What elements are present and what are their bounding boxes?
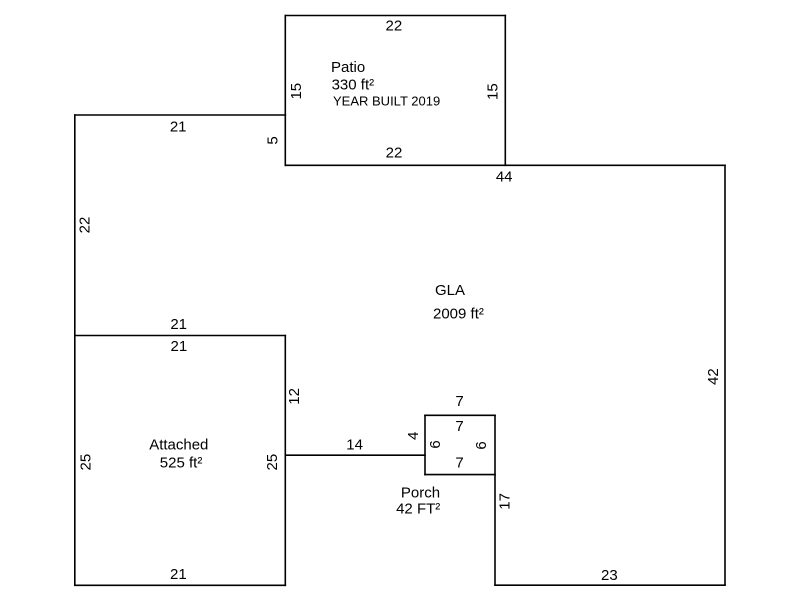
- svg-text:42: 42: [705, 368, 722, 385]
- svg-text:4: 4: [405, 432, 422, 440]
- wall: porch top: [425, 414, 495, 416]
- svg-text:22: 22: [386, 144, 403, 161]
- svg-text:17: 17: [496, 493, 513, 510]
- svg-text:14: 14: [346, 437, 363, 454]
- svg-text:YEAR BUILT 2019: YEAR BUILT 2019: [333, 94, 440, 109]
- wall: GLA right side: [724, 165, 726, 585]
- wall: porch left: [424, 415, 426, 474]
- svg-text:44: 44: [496, 169, 513, 186]
- svg-text:25: 25: [264, 454, 281, 471]
- wall: left side (GLA + Attached): [74, 115, 76, 585]
- svg-text:Attached: Attached: [149, 437, 208, 454]
- svg-text:21: 21: [170, 316, 187, 333]
- svg-text:7: 7: [455, 418, 463, 435]
- svg-text:15: 15: [288, 83, 305, 100]
- wall: connector line (14): [285, 454, 425, 456]
- wall: patio top: [285, 15, 505, 17]
- svg-text:5: 5: [265, 136, 282, 144]
- wall: patio bottom / GLA top (y=165): [285, 164, 725, 166]
- svg-text:6: 6: [473, 441, 490, 449]
- svg-text:21: 21: [170, 566, 187, 583]
- svg-text:525 ft²: 525 ft²: [160, 455, 203, 472]
- svg-text:22: 22: [76, 217, 93, 234]
- svg-text:42 FT²: 42 FT²: [396, 501, 440, 518]
- wall: patio left: [284, 16, 286, 166]
- svg-text:2009 ft²: 2009 ft²: [433, 306, 484, 323]
- svg-text:Porch: Porch: [401, 484, 440, 501]
- svg-text:23: 23: [601, 567, 618, 584]
- wall: patio right: [504, 16, 506, 166]
- svg-text:22: 22: [386, 18, 403, 35]
- svg-text:21: 21: [171, 338, 188, 355]
- svg-text:7: 7: [455, 454, 463, 471]
- wall: porch bottom: [425, 474, 495, 476]
- svg-text:6: 6: [427, 440, 444, 448]
- svg-text:12: 12: [286, 388, 303, 405]
- svg-text:15: 15: [485, 83, 502, 100]
- svg-text:GLA: GLA: [435, 282, 465, 299]
- wall: attached garage bottom: [75, 584, 285, 586]
- wall: attached garage right: [284, 336, 286, 586]
- svg-text:7: 7: [455, 393, 463, 410]
- svg-text:Patio: Patio: [331, 59, 365, 76]
- wall: GLA bottom: [495, 584, 725, 586]
- wall: GLA upper-left top: [75, 114, 285, 116]
- svg-text:21: 21: [170, 119, 187, 136]
- wall: porch right + GLA step (17): [494, 415, 496, 585]
- svg-text:330 ft²: 330 ft²: [332, 77, 375, 94]
- svg-text:25: 25: [78, 454, 95, 471]
- wall: attached garage top: [75, 335, 285, 337]
